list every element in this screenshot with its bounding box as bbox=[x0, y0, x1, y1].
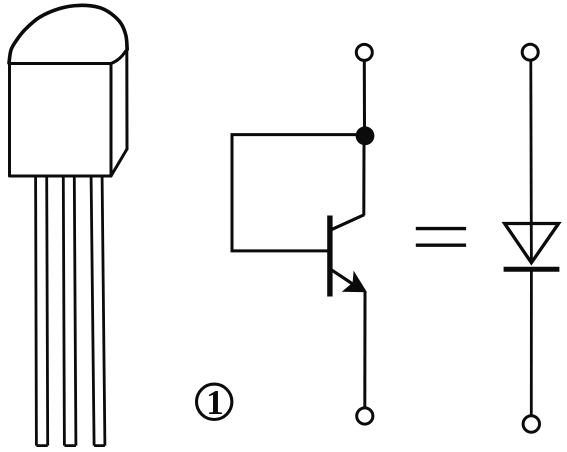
wire: base feedback loop (top, left, bottom) bbox=[232, 135, 357, 251]
package side face top boundary curve bbox=[111, 51, 126, 64]
bottom terminal circle bbox=[523, 416, 539, 432]
transistor Q1 emitter line bbox=[331, 270, 361, 290]
equals sign bbox=[416, 229, 466, 246]
bottom terminal circle bbox=[357, 408, 373, 424]
wire: diode cathode to bottom terminal bbox=[530, 269, 533, 416]
wire: junction to collector bbox=[362, 143, 365, 216]
wire: emitter to bottom terminal bbox=[363, 292, 366, 408]
leg 3 bbox=[91, 177, 105, 446]
package legs bbox=[36, 177, 105, 446]
wire: top terminal to diode anode bbox=[529, 60, 532, 262]
wire: top terminal to junction bbox=[363, 61, 366, 129]
diode D1 triangle bbox=[505, 224, 559, 263]
package side face bottom slant bbox=[111, 149, 127, 176]
transistor Q1 emitter arrowhead bbox=[342, 271, 367, 293]
transistor Q1 base bar bbox=[327, 216, 332, 297]
package side face right edge bbox=[125, 44, 128, 149]
package front face bbox=[10, 64, 112, 177]
svg-text:1: 1 bbox=[206, 383, 224, 422]
package dome top bbox=[9, 5, 127, 63]
top terminal circle bbox=[356, 44, 372, 60]
transistor package TO-92 outline drawing bbox=[9, 5, 127, 176]
diode D1 cathode bar bbox=[504, 267, 560, 272]
transistor Q1 collector line bbox=[331, 215, 364, 230]
leg 1 bbox=[36, 177, 48, 446]
leg 2 bbox=[63, 177, 76, 446]
label: circled 1 bbox=[197, 383, 232, 422]
junction dot bbox=[356, 126, 375, 145]
top terminal circle bbox=[522, 44, 538, 60]
